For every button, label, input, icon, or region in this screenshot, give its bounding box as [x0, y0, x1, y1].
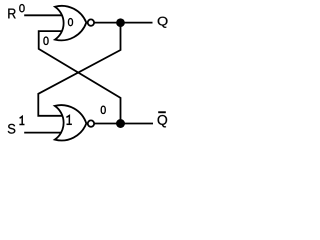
input label R: [8, 9, 15, 19]
wire feedback from node Q to U2 upper input: [38, 23, 120, 116]
output label Q: [158, 17, 168, 28]
value 0 on U2 output: [101, 106, 105, 113]
NOR gate U2 body: [55, 105, 87, 140]
wire S input: [24, 132, 63, 134]
value 0 inside gate U1: [69, 19, 73, 26]
value 0 on U1 feedback input: [44, 37, 48, 44]
node Qbar junction dot: [116, 119, 125, 128]
output label Qbar: [158, 115, 168, 127]
NOR gate U1 output bubble: [88, 19, 94, 25]
input label S: [8, 124, 16, 134]
wire feedback from node Qbar to U1 lower input: [39, 31, 121, 123]
value 1 inside gate U2: [66, 116, 72, 125]
overline of Qbar: [158, 111, 166, 113]
node Q junction dot: [116, 18, 125, 27]
value 0 on input R (superscript): [20, 5, 24, 12]
NOR gate U2 output bubble: [88, 120, 94, 126]
value 1 on input S (superscript): [19, 116, 24, 124]
NOR gate U1 body: [55, 6, 86, 41]
wire U2 output to node Qbar: [94, 123, 153, 125]
wire R input: [24, 14, 63, 16]
wire U1 output to node Q: [94, 22, 153, 24]
